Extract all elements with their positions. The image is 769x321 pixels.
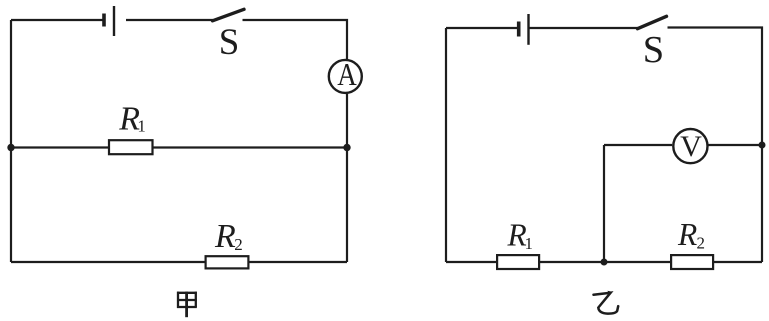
wire right edge below ammeter [346, 94, 348, 262]
wire R1 to junction to R2 [540, 261, 670, 263]
wire top-left to battery [446, 27, 519, 29]
svg-text:R: R [214, 218, 236, 255]
wire middle branch left [11, 146, 109, 148]
resistor R1 [109, 140, 153, 154]
wire bottom-left to R2 [11, 261, 205, 263]
label R2 [214, 218, 243, 255]
wire switch to top-right corner and down [243, 20, 348, 59]
battery BT2 [519, 14, 529, 45]
ammeter A [329, 56, 362, 93]
label R1 [507, 218, 534, 253]
wire R2 to bottom-right [714, 261, 762, 263]
svg-text:S: S [219, 22, 240, 63]
switch S blade [638, 16, 667, 28]
battery BT1 [104, 6, 114, 36]
wire voltmeter branch right [709, 144, 763, 146]
label R2 [677, 217, 705, 253]
node right edge junction [759, 142, 766, 149]
label jia (caption) [177, 292, 197, 318]
wire voltmeter branch left [604, 144, 672, 146]
node bottom junction [601, 259, 608, 266]
wire switch to top-right corner and down right edge [668, 28, 763, 263]
wire voltmeter down to bottom junction [603, 145, 605, 262]
wire battery to switch [530, 27, 639, 29]
resistor R2 [206, 256, 249, 268]
wire top-left to battery [11, 19, 104, 21]
wire R2 to bottom-right [250, 261, 348, 263]
svg-text:S: S [643, 29, 664, 71]
label R1 [118, 100, 146, 137]
svg-text:A: A [337, 56, 357, 92]
wire middle branch right [154, 146, 348, 148]
svg-text:1: 1 [525, 234, 534, 253]
wire left edge [445, 28, 447, 262]
svg-text:2: 2 [697, 234, 706, 253]
resistor R1 [497, 255, 539, 269]
svg-text:1: 1 [137, 116, 146, 135]
wire left edge [10, 20, 12, 262]
wire battery to switch [126, 19, 213, 21]
svg-text:2: 2 [234, 235, 243, 254]
node right junction [343, 144, 350, 151]
label yi (caption) [594, 293, 619, 314]
voltmeter V [673, 129, 707, 163]
switch S blade [213, 9, 245, 20]
node left junction [7, 144, 14, 151]
svg-text:R: R [677, 217, 697, 252]
wire bottom-left to R1 [446, 261, 496, 263]
resistor R2 [671, 255, 713, 269]
svg-text:V: V [680, 130, 702, 163]
